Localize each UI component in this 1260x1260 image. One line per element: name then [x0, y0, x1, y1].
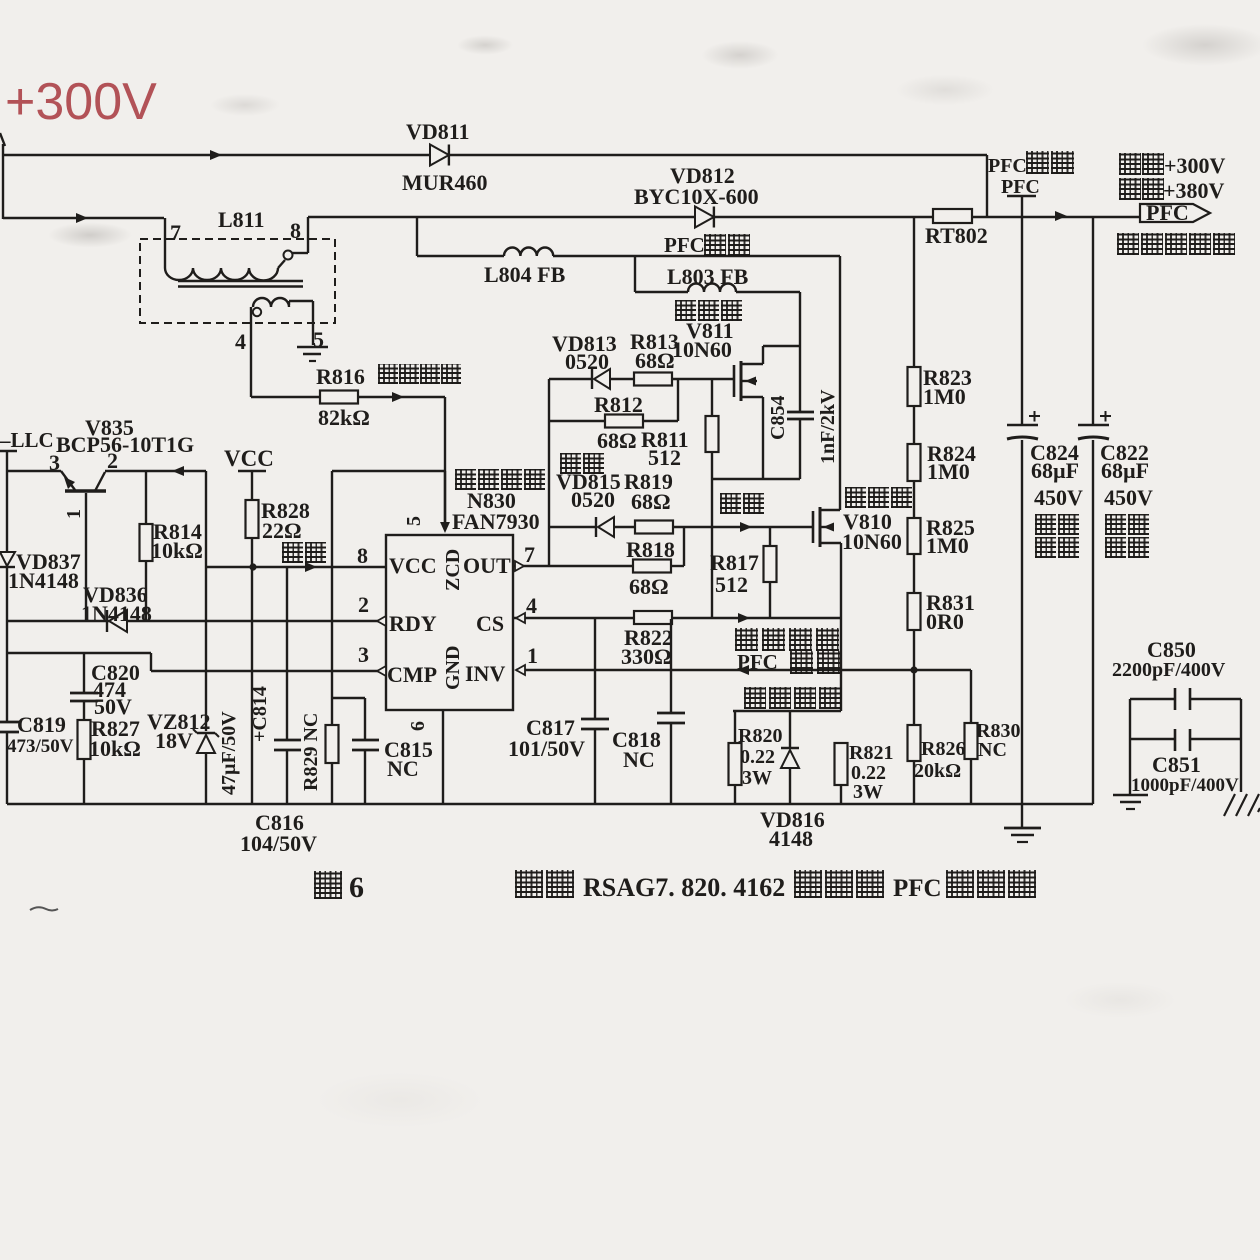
wire gate row1: [549, 378, 592, 380]
transistor Q2 V810: [813, 507, 902, 554]
L811 pin 8 lead: [290, 217, 308, 253]
label quyang (PFC sample): [790, 651, 844, 674]
svg-text:C854: C854: [767, 396, 789, 440]
wire OUT bus: [548, 379, 550, 566]
wire V835 pin2: [105, 466, 206, 476]
wire V810 source: [840, 543, 842, 711]
svg-text:4: 4: [235, 329, 246, 354]
wire top rail +300V: [3, 150, 987, 160]
wire INV row: [516, 665, 971, 675]
wire pin2 vertical: [205, 471, 207, 731]
L811 pin 5 lead: [313, 301, 324, 352]
svg-text:68Ω: 68Ω: [631, 489, 671, 514]
capacitor C824: [1007, 411, 1083, 804]
IC inner text RDY: [389, 611, 437, 636]
svg-text:+380V: +380V: [1163, 178, 1225, 203]
svg-text:PFC: PFC: [1001, 176, 1040, 198]
L811 primary winding: [165, 251, 308, 281]
resistor R831: [908, 554, 975, 670]
svg-text:6: 6: [407, 721, 429, 731]
svg-text:C851: C851: [1152, 752, 1201, 777]
IC inner text GND: [442, 646, 464, 690]
label caption dianyuanban (power board): [794, 870, 887, 898]
zener VZ812: [147, 709, 219, 804]
label gongdian (supply): [282, 542, 328, 563]
resistor R822: [621, 611, 673, 669]
svg-text:0R0: 0R0: [926, 609, 964, 634]
svg-text:1M0: 1M0: [926, 533, 969, 558]
diode VD837: [0, 549, 81, 722]
L811 pin 4 lead: [235, 307, 251, 397]
svg-text:8: 8: [357, 543, 368, 568]
diode VD811: [402, 119, 488, 195]
svg-text:+300V: +300V: [5, 73, 157, 131]
wire C850 right: [1240, 699, 1242, 792]
IC inner text VCC: [389, 553, 437, 578]
IC pin7 wire: [513, 561, 549, 571]
svg-text:CMP: CMP: [387, 662, 437, 687]
capacitor C850: [1112, 637, 1241, 710]
L811 secondary winding: [253, 298, 313, 316]
capacitor C819: [0, 712, 74, 804]
svg-text:6: 6: [349, 871, 364, 904]
resistor R819: [615, 469, 813, 534]
label daiji (standby): [1119, 153, 1165, 175]
svg-text:18V: 18V: [155, 728, 193, 753]
svg-text:R818: R818: [626, 537, 675, 562]
svg-text:PFC: PFC: [737, 650, 778, 674]
svg-text:82kΩ: 82kΩ: [318, 405, 370, 430]
L811 pin 7 lead: [165, 218, 181, 268]
svg-text:1: 1: [527, 643, 538, 668]
svg-text:2: 2: [358, 592, 369, 617]
svg-text:C819: C819: [17, 712, 66, 737]
capacitor C820: [70, 653, 140, 720]
wire RDY row: [7, 620, 378, 622]
ground C850: [1113, 795, 1148, 809]
wire left edge: [6, 451, 8, 551]
wire sample rail: [733, 710, 841, 712]
resistor R820: [729, 711, 783, 804]
svg-text:3: 3: [358, 642, 369, 667]
wire V811 drain: [763, 346, 800, 364]
label PFC sample: [737, 650, 778, 674]
svg-text:NC: NC: [978, 739, 1007, 761]
resistor R830: [965, 670, 1021, 804]
ground hatch right: [1224, 794, 1260, 816]
IC inner text INV: [465, 661, 505, 686]
wire V811 source: [762, 397, 764, 479]
IC inner text OUT: [463, 553, 511, 578]
svg-text:8: 8: [290, 218, 301, 243]
IC pin labels right: [524, 542, 538, 668]
resistor R817: [710, 527, 777, 618]
label jili left (drive): [560, 453, 606, 474]
node PFC connector: [1140, 200, 1210, 225]
svg-text:PFC: PFC: [1146, 200, 1189, 225]
svg-text:3W: 3W: [853, 781, 883, 803]
svg-text:47µF/50V: 47µF/50V: [218, 711, 240, 795]
svg-text:7: 7: [170, 220, 181, 245]
label guoliu baohu (overcurrent protect): [735, 628, 843, 651]
IC pin labels left: [357, 543, 369, 667]
label caption tu (fig): [314, 871, 345, 899]
svg-text:PFC: PFC: [988, 155, 1027, 177]
IC pin 5 lead: [403, 471, 450, 533]
inductor L811 dashed box: [140, 207, 335, 323]
resistor R814: [140, 471, 203, 621]
svg-text:BYC10X-600: BYC10X-600: [634, 184, 759, 209]
resistor R828: [246, 498, 310, 543]
svg-text:R821: R821: [849, 742, 893, 764]
wire divider top: [913, 217, 915, 367]
op-amp U1 N830 FAN7930 box: [386, 488, 540, 710]
resistor R812: [549, 392, 678, 453]
svg-text:1nF/2kV: 1nF/2kV: [817, 389, 839, 464]
caption figure 6: [349, 871, 942, 904]
capacitor C815: [332, 698, 433, 804]
label guoliu quyang (current sample): [744, 687, 844, 709]
svg-text:L804 FB: L804 FB: [484, 262, 566, 287]
IC inner text ZCD: [442, 549, 464, 591]
wire cluster2 right: [683, 527, 685, 566]
svg-text:R829 NC: R829 NC: [300, 713, 322, 791]
label standby +300V: [1164, 153, 1226, 178]
svg-text:0520: 0520: [565, 349, 609, 374]
L811 core: [178, 281, 303, 287]
capacitor C854: [767, 292, 839, 479]
svg-text:68µF: 68µF: [1101, 458, 1149, 483]
wire CS row: [513, 613, 841, 623]
svg-text:4148: 4148: [769, 826, 813, 851]
node +300V input: [0, 133, 5, 219]
resistor R821: [835, 742, 894, 804]
label PFC output net: [988, 155, 1040, 198]
svg-text:104/50V: 104/50V: [240, 831, 317, 856]
wire pin8 supply: [206, 562, 386, 572]
svg-text:1N4148: 1N4148: [81, 601, 152, 626]
resistor R827: [78, 716, 141, 804]
label lvbo C824: [1035, 514, 1081, 535]
wire cluster1 right: [677, 379, 679, 421]
svg-text:5: 5: [403, 516, 425, 526]
svg-text:+C814: +C814: [249, 686, 271, 742]
svg-text:L811: L811: [218, 207, 264, 232]
ground main: [1004, 804, 1041, 842]
svg-text:101/50V: 101/50V: [508, 736, 585, 761]
wire source row: [712, 478, 800, 480]
wire ground rail: [7, 803, 1093, 805]
thermistor RT802: [925, 209, 988, 248]
label qudong dianlu (driver): [455, 469, 547, 490]
label guoling jiance (zero-cross detect): [378, 364, 462, 384]
junction VCC-pin8: [249, 563, 256, 570]
svg-text:2: 2: [107, 448, 118, 473]
IC pin 6 lead: [407, 710, 443, 804]
resistor R811: [641, 379, 719, 618]
svg-text:330Ω: 330Ω: [621, 644, 672, 669]
svg-text:MUR460: MUR460: [402, 170, 488, 195]
svg-text:NC: NC: [387, 756, 419, 781]
wire CMP jog: [150, 653, 152, 671]
svg-text:VD811: VD811: [406, 119, 470, 144]
svg-text:450V: 450V: [1034, 485, 1083, 510]
junction INV-R831: [910, 666, 917, 673]
wire top rail C820 box: [7, 652, 151, 654]
resistor R829: [300, 713, 339, 804]
inductor L804: [417, 247, 840, 287]
label kaiguanguan V811 (switch): [675, 300, 744, 321]
svg-text:VCC: VCC: [224, 446, 274, 471]
wire second rail main: [308, 211, 1140, 221]
svg-text:+300V: +300V: [1164, 153, 1226, 178]
resistor R818: [549, 537, 684, 599]
svg-text:3W: 3W: [742, 767, 772, 789]
ground L811 pin5: [297, 347, 328, 361]
net PFC output stub: [1007, 196, 1036, 424]
IC pin2 arrowhead: [377, 616, 386, 626]
svg-text:68Ω: 68Ω: [635, 348, 675, 373]
inductor L803: [635, 264, 800, 292]
label qu zhu fu dianyuan (to main aux psu): [1117, 233, 1237, 255]
svg-text:PFC: PFC: [664, 233, 705, 257]
diode VD816: [760, 711, 825, 851]
svg-text:RSAG7. 820. 4162: RSAG7. 820. 4162: [583, 873, 785, 902]
IC inner text CS: [476, 611, 504, 636]
resistor R816: [251, 364, 445, 430]
wire ZCD branch: [332, 470, 445, 472]
svg-text:22Ω: 22Ω: [262, 518, 302, 543]
svg-text:512: 512: [648, 445, 681, 470]
wire L804 branch: [416, 217, 418, 256]
label C816: [240, 810, 317, 856]
svg-text:7: 7: [524, 542, 535, 567]
svg-text:1M0: 1M0: [927, 459, 970, 484]
label shuchu (PFC output): [1026, 151, 1076, 174]
svg-text:2200pF/400V: 2200pF/400V: [1112, 659, 1226, 681]
wire CMP row: [151, 670, 378, 672]
capacitor C818: [612, 619, 685, 804]
label kaiji (power-on): [1119, 178, 1165, 200]
node LLC stub: [0, 428, 54, 452]
capacitor C822: [1078, 217, 1153, 804]
svg-text:R812: R812: [594, 392, 643, 417]
label power-on +380V: [1163, 178, 1225, 203]
svg-text:R820: R820: [738, 725, 782, 747]
svg-text:NC: NC: [623, 747, 655, 772]
svg-text:1M0: 1M0: [923, 384, 966, 409]
svg-text:ZCD: ZCD: [442, 549, 464, 591]
svg-text:VCC: VCC: [389, 553, 437, 578]
wire V835 pin3: [7, 450, 61, 475]
svg-text:R826: R826: [921, 738, 965, 760]
svg-text:68µF: 68µF: [1031, 458, 1079, 483]
IC pin3 arrowhead: [377, 666, 386, 676]
svg-text:473/50V: 473/50V: [7, 736, 74, 757]
svg-text:10kΩ: 10kΩ: [89, 736, 141, 761]
wire V835 base lead: [85, 493, 87, 621]
svg-text:0520: 0520: [571, 487, 615, 512]
label kaiguanguan V810 (switch): [845, 487, 914, 508]
resistor R825: [908, 481, 975, 558]
label lvbo C822: [1105, 514, 1151, 535]
resistor R824: [908, 406, 976, 484]
svg-text:L803 FB: L803 FB: [667, 264, 749, 289]
transistor V835: [56, 415, 194, 519]
svg-text:OUT: OUT: [463, 553, 511, 578]
svg-text:BCP56-10T1G: BCP56-10T1G: [56, 432, 194, 457]
svg-text:1: 1: [63, 509, 85, 519]
IC inner text CMP: [387, 662, 437, 687]
wire second rail left: [3, 213, 164, 223]
capacitor C814: [218, 567, 301, 804]
svg-text:10N60: 10N60: [672, 337, 732, 362]
wire ZCD vertical: [444, 397, 446, 530]
wire gate row2: [549, 522, 752, 532]
diode VD813: [552, 331, 617, 389]
svg-text:RT802: RT802: [925, 223, 988, 248]
stray pen mark: [30, 907, 58, 910]
svg-text:1000pF/400V: 1000pF/400V: [1131, 775, 1239, 796]
capacitor C851: [1130, 729, 1241, 796]
label caption dianlutu (circuit diagram): [946, 870, 1039, 898]
svg-text:RDY: RDY: [389, 611, 437, 636]
resistor R823: [908, 365, 972, 409]
label zhengliu (PFC rectify): [704, 234, 752, 256]
svg-text:GND: GND: [442, 646, 464, 690]
svg-text:PFC: PFC: [893, 875, 942, 902]
svg-text:68Ω: 68Ω: [597, 428, 637, 453]
svg-text:R816: R816: [316, 364, 365, 389]
resistor R826: [908, 670, 966, 804]
svg-text:512: 512: [715, 572, 748, 597]
svg-text:10kΩ: 10kΩ: [151, 538, 203, 563]
svg-text:INV: INV: [465, 661, 505, 686]
label caption haixin (Hisense): [515, 870, 577, 898]
svg-text:450V: 450V: [1104, 485, 1153, 510]
capacitor C817: [508, 619, 609, 804]
label +300V net: [5, 73, 157, 131]
svg-text:1N4148: 1N4148: [8, 568, 79, 593]
label jili right (drive): [720, 493, 766, 514]
wire ZCD net down: [331, 471, 333, 725]
svg-text:0.22: 0.22: [740, 746, 775, 768]
svg-text:CS: CS: [476, 611, 504, 636]
resistor R813: [611, 329, 733, 386]
svg-text:68Ω: 68Ω: [629, 574, 669, 599]
wire C850 left: [1129, 699, 1131, 794]
diode VD836: [81, 582, 152, 632]
svg-text:FAN7930: FAN7930: [452, 509, 540, 534]
label dianrong C824: [1035, 537, 1081, 558]
wire VCC down: [251, 538, 253, 804]
wire V810 drain bus: [839, 256, 841, 510]
svg-text:10N60: 10N60: [842, 529, 902, 554]
power VCC symbol: [224, 446, 274, 500]
diode VD812: [634, 163, 759, 228]
wire VD811 drop: [986, 155, 988, 217]
svg-text:–LLC: –LLC: [0, 428, 54, 452]
svg-text:20kΩ: 20kΩ: [914, 760, 961, 782]
wire L803 branch: [634, 256, 636, 292]
label PFC rectify: [664, 233, 705, 257]
diode VD815: [556, 469, 621, 537]
transistor Q1 V811: [672, 318, 763, 401]
svg-text:4: 4: [526, 593, 537, 618]
label dianrong C822: [1105, 537, 1151, 558]
